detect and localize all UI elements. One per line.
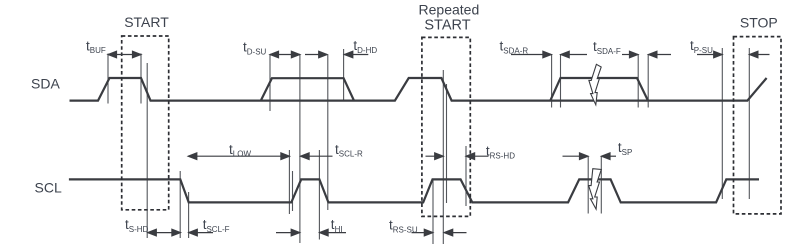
- node tSDA-R right reference: [560, 54, 562, 108]
- svg-text:STOP: STOP: [740, 15, 778, 31]
- node SDA fall start reference (repeated start): [442, 70, 444, 244]
- wire SDA data pulse (tSDA-R/tSDA-F): [550, 78, 648, 101]
- tSCL-F dimension arrow (left pointing): [189, 229, 213, 236]
- node tSP left reference: [587, 156, 589, 214]
- node SDA START fall reference: [146, 63, 148, 238]
- node SCL rise top reference (long): [299, 55, 301, 243]
- node SDA rise reference (tP-SU right): [748, 48, 750, 199]
- tSDA-R dimension arrows: [511, 51, 587, 58]
- node tSDA-F right reference: [647, 54, 649, 108]
- break symbol on SCL (lightning bolt): [589, 169, 602, 210]
- svg-text:tSCL-R: tSCL-R: [335, 142, 363, 159]
- tRS-HD dimension arrows: [426, 153, 489, 160]
- tSCL-R dimension arrow (left pointing): [301, 153, 333, 160]
- START condition dashed box: [122, 36, 169, 210]
- node tBUF right reference: [140, 54, 142, 104]
- tLOW dimension arrow: [188, 153, 289, 160]
- svg-text:tP-SU: tP-SU: [690, 38, 713, 55]
- svg-text:tS-HD: tS-HD: [125, 217, 149, 234]
- svg-text:SDA: SDA: [31, 76, 60, 92]
- svg-text:tD-HD: tD-HD: [353, 38, 377, 55]
- node SCL fall bottom reference (tSCL-F): [188, 192, 190, 238]
- node SCL fall start reference (tHI right): [318, 150, 320, 240]
- node tBUF left reference: [107, 54, 109, 104]
- wire SCL waveform: [69, 179, 759, 202]
- svg-text:Repeated: Repeated: [419, 1, 480, 17]
- wire SDA data pulse (tD-SU/tD-HD): [261, 78, 354, 100]
- svg-text:tSDA-F: tSDA-F: [593, 39, 621, 56]
- Repeated START condition dashed box: [422, 37, 470, 216]
- node SCL fall reference (tRS-HD right): [465, 146, 467, 206]
- svg-text:SCL: SCL: [35, 180, 62, 196]
- data hold dimension arrow (right pointing): [305, 51, 327, 58]
- node tSDA-R left reference: [551, 54, 553, 108]
- node SDA fall mid reference (repeated start): [446, 84, 448, 203]
- node tLOW right reference: [288, 150, 290, 214]
- tSP dimension arrows: [563, 153, 617, 160]
- node SCL rise reference (tP-SU left): [721, 48, 723, 199]
- svg-text:tHI: tHI: [331, 217, 343, 234]
- node tD-SU left reference: [269, 55, 271, 111]
- break symbol on SDA (lightning bolt): [589, 64, 601, 105]
- STOP condition dashed box: [734, 37, 782, 214]
- node tSDA-F left reference: [637, 54, 639, 108]
- tS-HD dimension arrow: [148, 229, 181, 236]
- svg-text:START: START: [124, 14, 169, 30]
- tHI dimension arrows: [276, 229, 346, 236]
- tRS-SU dimension arrows: [412, 229, 467, 236]
- node SCL fall bottom reference 2: [327, 55, 329, 210]
- node SCL fall reference (tS-HD right): [179, 171, 181, 238]
- svg-text:tSCL-F: tSCL-F: [203, 217, 230, 234]
- tD-SU dimension arrow: [270, 51, 300, 58]
- tD-HD dimension arrow (left pointing): [344, 51, 368, 58]
- node SCL rise top reference (repeated start): [432, 180, 434, 244]
- wire SDA waveform main: [70, 78, 767, 101]
- svg-text:tSP: tSP: [618, 140, 632, 157]
- tBUF dimension arrow: [108, 51, 141, 58]
- svg-text:START: START: [424, 18, 470, 34]
- svg-text:tRS-SU: tRS-SU: [389, 218, 418, 235]
- tSDA-F dimension arrows: [622, 51, 671, 58]
- svg-text:tBUF: tBUF: [86, 38, 106, 55]
- node tD-HD reference: [343, 49, 345, 101]
- svg-text:tLOW: tLOW: [229, 142, 251, 159]
- node SCL rise start reference: [292, 171, 294, 211]
- svg-text:tD-SU: tD-SU: [243, 40, 267, 57]
- tP-SU dimension arrows: [697, 51, 770, 58]
- svg-text:tSDA-R: tSDA-R: [500, 39, 529, 56]
- node tSP right reference: [600, 156, 602, 214]
- svg-text:tRS-HD: tRS-HD: [486, 144, 515, 161]
